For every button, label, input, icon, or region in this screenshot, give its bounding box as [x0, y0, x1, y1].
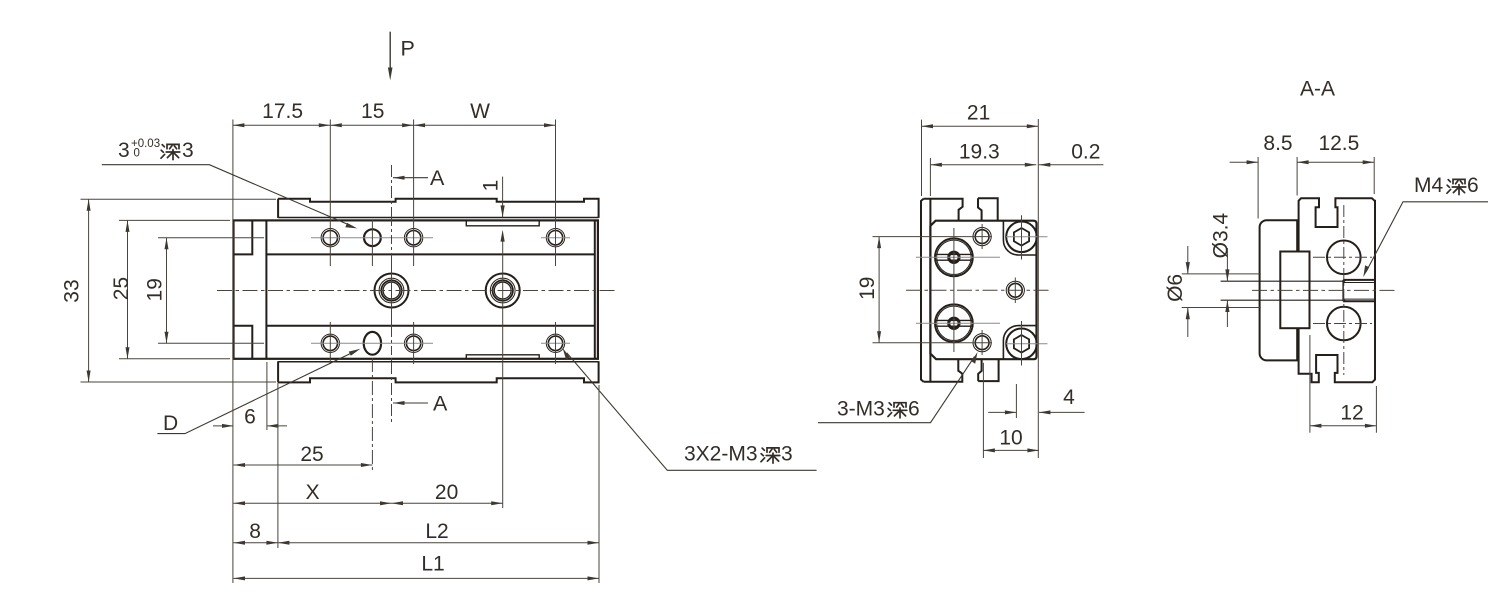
label 3+0.03 depth 3 with leader: [102, 138, 357, 229]
svg-text:19: 19: [144, 278, 167, 301]
svg-text:M4: M4: [1414, 174, 1443, 197]
hex screw pockets: [1003, 221, 1036, 360]
right end cover line: [594, 220, 596, 358]
left plate (rounded): [1260, 220, 1298, 360]
dimension 1 (recess depth): [480, 177, 505, 242]
dimension dia 3.4: [1210, 213, 1233, 327]
svg-text:W: W: [470, 100, 490, 123]
section arrow A top: [393, 166, 445, 190]
plate boundary lines above/below body: [278, 218, 598, 362]
boss U1 (left center bearing boss): [375, 274, 409, 308]
svg-text:X: X: [306, 481, 320, 504]
svg-text:6: 6: [908, 398, 920, 421]
svg-text:3X2-M3: 3X2-M3: [684, 443, 758, 466]
M3 holes bottom row: [321, 334, 565, 352]
svg-text:25: 25: [110, 277, 133, 300]
svg-text:21: 21: [967, 101, 990, 124]
svg-text:3-M3: 3-M3: [837, 398, 885, 421]
body inner rails: [266, 253, 594, 255]
M4 clearance circles: [1327, 240, 1361, 274]
hole crosshair lines top row: [311, 238, 570, 344]
svg-text:3: 3: [781, 443, 793, 466]
M3 holes top row: [321, 229, 565, 247]
body outline: [234, 220, 598, 358]
svg-text:A: A: [430, 166, 445, 190]
svg-text:0.2: 0.2: [1071, 140, 1100, 163]
dimension 19 (middle): [873, 237, 993, 343]
label 3X2-M3 depth3 with leader: [563, 348, 817, 471]
dimension dia 6: [1164, 246, 1190, 337]
dimension 17.5 / 15 / W top: [233, 120, 556, 267]
top recess (1mm groove): [466, 220, 539, 358]
main block outline: [1299, 198, 1375, 382]
svg-text:3: 3: [118, 139, 130, 162]
svg-text:8: 8: [249, 520, 261, 543]
svg-text:15: 15: [361, 100, 384, 123]
svg-text:L1: L1: [421, 553, 444, 576]
svg-text:Ø6: Ø6: [1164, 274, 1187, 302]
rod hole 3.4 lines: [1221, 281, 1344, 300]
dimension 8 / L2: [233, 217, 599, 583]
dimension X / 20: [234, 502, 503, 504]
svg-text:4: 4: [1063, 386, 1075, 409]
centre nut block: [1280, 252, 1309, 329]
svg-text:6: 6: [244, 406, 256, 429]
label 3-M3 depth6 with leader: [818, 352, 978, 423]
dimension L1: [234, 577, 600, 579]
label D with leader: [157, 349, 360, 435]
centrelines: [1252, 205, 1398, 375]
svg-text:33: 33: [61, 279, 84, 302]
roller top: [935, 238, 973, 276]
svg-text:19: 19: [856, 277, 879, 300]
section line A-A: [391, 165, 393, 422]
centrelines and crosshairs: [906, 289, 1050, 291]
svg-text:20: 20: [435, 481, 458, 504]
boss centre verticals: [392, 217, 503, 362]
svg-text:12: 12: [1340, 401, 1363, 424]
M3 thread holes: [973, 228, 1024, 352]
plate edge-on: [921, 199, 963, 382]
dimension 19 left: [158, 238, 264, 344]
svg-text:10: 10: [999, 426, 1022, 449]
hex socket screws: [1006, 222, 1037, 360]
label M4 depth6 with leader: [1363, 174, 1488, 277]
dimension 6 bottom: [213, 362, 287, 430]
svg-text:19.3: 19.3: [959, 140, 1000, 163]
dimension 12: [1310, 335, 1377, 433]
svg-text:A: A: [433, 392, 448, 416]
dimension 33 left: [81, 199, 277, 382]
end cap separation line: [265, 220, 267, 358]
svg-text:25: 25: [300, 443, 323, 466]
svg-text:3: 3: [182, 139, 194, 162]
dowel hole 3+0.03: [364, 229, 381, 246]
slide plate outline (top view): [278, 199, 598, 383]
hole centre verticals bottom row: [330, 220, 555, 364]
top tab B: [978, 198, 999, 381]
svg-text:0: 0: [134, 148, 140, 160]
boss U2 (right center bearing boss): [486, 274, 520, 308]
svg-text:8.5: 8.5: [1263, 132, 1292, 155]
dimension 4: [988, 384, 1084, 418]
roller bottom: [935, 304, 973, 342]
dimension 21: [922, 119, 1039, 458]
dimension 10: [983, 363, 1039, 458]
section arrow A bottom: [393, 392, 448, 416]
svg-text:17.5: 17.5: [262, 100, 303, 123]
M4 thread hole: [1343, 280, 1375, 301]
dimension 25 left: [119, 220, 230, 358]
dimension 19.3 and 0.2: [930, 158, 1103, 196]
dimension 25 bottom: [234, 358, 373, 470]
horizontal centerline: [217, 290, 616, 292]
slot hole D: [364, 332, 381, 355]
svg-text:12.5: 12.5: [1318, 132, 1359, 155]
svg-text:L2: L2: [425, 520, 448, 543]
6mm bore extension lines: [1182, 274, 1261, 308]
svg-text:6: 6: [1467, 174, 1479, 197]
P load arrow: [388, 32, 415, 81]
svg-text:D: D: [163, 412, 178, 435]
svg-text:A-A: A-A: [1300, 78, 1335, 101]
svg-text:Ø3.4: Ø3.4: [1210, 213, 1233, 259]
body left end cap notches: [234, 220, 595, 358]
svg-text:P: P: [401, 36, 415, 60]
svg-text:1: 1: [480, 180, 503, 192]
body end outline: [930, 221, 1036, 360]
dimension 8.5 / 12.5: [1230, 157, 1375, 219]
